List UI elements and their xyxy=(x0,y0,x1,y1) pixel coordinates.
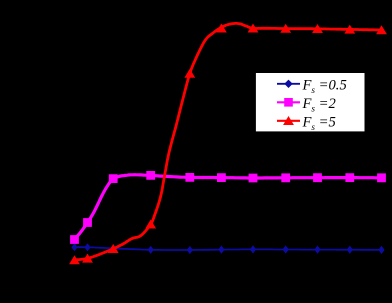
legend sample line Fs=2 xyxy=(277,98,300,107)
svg-text:Fs =5: Fs =5 xyxy=(302,115,336,132)
legend sample line Fs=0.5 xyxy=(277,80,300,88)
curve Fs=2 (magenta line) xyxy=(74,175,381,240)
curve Fs=0.5 (blue line) xyxy=(75,247,382,250)
markers Fs=0.5 (blue diamonds) xyxy=(71,243,384,254)
svg-text:Fs =2: Fs =2 xyxy=(302,96,336,113)
legend box xyxy=(255,72,365,132)
curve Fs=5 (red line) xyxy=(75,23,382,260)
markers Fs=2 (magenta squares) xyxy=(70,171,386,244)
legend sample line Fs=5 xyxy=(277,116,300,125)
svg-text:Fs =0.5: Fs =0.5 xyxy=(302,78,347,95)
markers Fs=5 (red triangles) xyxy=(69,24,387,265)
